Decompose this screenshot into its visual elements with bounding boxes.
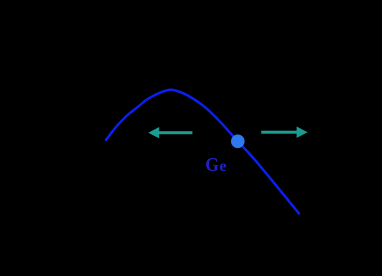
- right arrow: [261, 127, 307, 138]
- svg-text:e: e: [219, 156, 226, 175]
- left arrow: [148, 127, 192, 138]
- svg-text:G: G: [205, 154, 219, 176]
- point Ge (dot): [231, 135, 245, 149]
- label Ge: [205, 154, 226, 176]
- curve: [106, 90, 299, 214]
